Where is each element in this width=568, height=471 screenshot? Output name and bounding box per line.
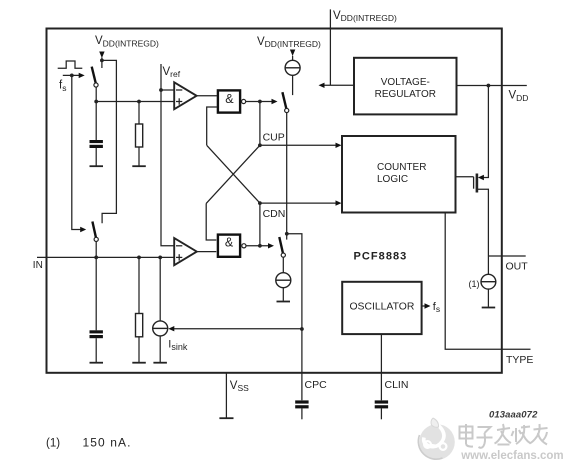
current source I2 xyxy=(276,273,291,288)
wire node CDN vertical xyxy=(259,203,261,246)
wire oscillator fs output xyxy=(422,305,425,307)
wire VSS pin xyxy=(225,373,227,418)
wire transistor source to OUT xyxy=(477,189,488,256)
wire OUT to current source I3 xyxy=(487,256,489,274)
svg-text:CUP: CUP xyxy=(263,132,285,144)
ground under I3 xyxy=(482,307,496,309)
block VOLTAGE-REGULATOR U1 xyxy=(354,58,457,115)
arrowheads xyxy=(79,50,484,332)
current source I3 ground wire xyxy=(487,289,489,307)
capacitor C1 wires xyxy=(95,102,97,141)
capacitor C2 xyxy=(90,330,103,338)
wire CDN to counter logic xyxy=(260,202,338,204)
svg-text:CDN: CDN xyxy=(263,208,286,220)
wire CPC stub below capacitor xyxy=(301,408,303,419)
svg-text:(1): (1) xyxy=(469,279,480,289)
arrow CUP into counter xyxy=(336,143,342,148)
wire CPC branch xyxy=(287,234,302,400)
wire crossover CUP to AND2 diagonal xyxy=(206,145,260,203)
capacitor C3 CPC external xyxy=(295,400,308,408)
watermark chinese glyph 3 xyxy=(495,424,512,445)
arrow VDD(INTREGD) feed 2 down xyxy=(290,50,295,57)
wire comparator A1 plus rail xyxy=(96,101,174,103)
capacitor C4 CLIN external xyxy=(375,400,388,408)
watermark chinese glyph 5 xyxy=(530,424,548,445)
ground under R2 xyxy=(132,362,146,364)
arrow fs bottom right xyxy=(80,227,86,232)
wire OUT pin xyxy=(488,255,525,257)
wire node CUP vertical xyxy=(259,102,261,146)
arrow VDD(INTREGD) feed 1 down xyxy=(99,52,104,59)
switch S1 xyxy=(92,67,98,88)
svg-text:&: & xyxy=(225,92,234,106)
watermark chinese glyph 4 xyxy=(512,425,531,444)
wire AND2 output xyxy=(246,245,270,247)
ground under C2 xyxy=(90,362,104,364)
wire switch S3 hinge down to S4 contact xyxy=(286,113,288,240)
arrow transistor drain left xyxy=(478,175,484,180)
ground under R1 xyxy=(132,165,146,167)
svg-text:OSCILLATOR: OSCILLATOR xyxy=(349,302,414,313)
arrow Isink control left xyxy=(168,326,174,331)
transistor Q1 xyxy=(474,174,477,193)
wire CLIN from oscillator bottom xyxy=(380,334,382,400)
wire switch S1 contact branch over to switch S2 contact xyxy=(102,60,117,223)
svg-text:REGULATOR: REGULATOR xyxy=(375,89,436,100)
switch S3 xyxy=(282,92,288,112)
arrow CDN into counter xyxy=(336,200,342,205)
resistor R1 xyxy=(136,124,143,147)
wire CUP to counter logic xyxy=(260,144,338,146)
ground under C1 xyxy=(90,165,104,167)
wire switch S4 hinge to current source I2 xyxy=(282,257,284,272)
svg-text:CLIN: CLIN xyxy=(385,379,409,391)
wire AND2 feedback input from CUP xyxy=(206,203,216,240)
wire AND1 feedback input from CDN xyxy=(207,107,217,145)
current source I3 xyxy=(481,274,496,289)
resistor R2 xyxy=(136,314,143,337)
block OSCILLATOR U3 xyxy=(342,282,421,334)
ground under I2 xyxy=(277,301,291,303)
ground under Isink xyxy=(153,362,167,364)
logic gate AND1 xyxy=(218,90,246,112)
ground VSS xyxy=(219,417,233,419)
capacitor C1 xyxy=(90,140,103,148)
svg-text:VOLTAGE-: VOLTAGE- xyxy=(381,77,430,88)
wire regulator right to VDD pin xyxy=(457,85,527,87)
op-amp comparator A1 xyxy=(174,82,196,109)
svg-text:&: & xyxy=(225,235,234,249)
wire switch S1 hinge to rail xyxy=(95,87,97,102)
wire VDD(INTREGD) arrow stub to switch S1 contact xyxy=(101,58,103,69)
current source I1 wire to switch S3 contact xyxy=(292,56,294,61)
watermark chinese glyph 1 xyxy=(460,424,474,447)
current source I1 xyxy=(285,60,300,75)
svg-text:150 nA.: 150 nA. xyxy=(83,436,132,450)
arrow fs oscillator output right xyxy=(425,303,431,308)
svg-text:TYPE: TYPE xyxy=(506,354,533,366)
switch S2 xyxy=(92,222,98,242)
resistor R2 wires xyxy=(138,257,140,313)
chip boundary box xyxy=(47,29,502,373)
watermark logo circle xyxy=(418,418,454,460)
op-amp comparator A2 xyxy=(174,238,197,265)
current source Isink xyxy=(153,321,168,336)
arrow AND1 output xyxy=(272,99,278,104)
pulse waveform symbol xyxy=(58,61,83,68)
svg-text:(1): (1) xyxy=(46,437,60,449)
arrow regulator output left xyxy=(319,83,325,88)
wire Vref vertical net xyxy=(161,64,174,246)
wire crossover CDN to AND1 diagonal xyxy=(207,145,260,203)
watermark chinese glyph 2 xyxy=(477,427,493,448)
svg-text:OUT: OUT xyxy=(506,261,529,273)
svg-text:IN: IN xyxy=(33,260,43,271)
wire switch S2 hinge to IN rail xyxy=(95,241,97,257)
arrow AND2 output xyxy=(268,243,274,248)
wire fs control vertical branch xyxy=(63,74,81,76)
wire comparator A2 output to AND2 xyxy=(197,251,217,253)
arrow fs top right xyxy=(79,73,85,78)
svg-text:PCF8883: PCF8883 xyxy=(354,251,408,263)
resistor R1 wires xyxy=(138,102,140,125)
svg-text:COUNTER: COUNTER xyxy=(377,162,426,173)
wire VDD to transistor drain xyxy=(483,86,489,178)
svg-text:013aaa072: 013aaa072 xyxy=(489,409,538,420)
svg-text:CPC: CPC xyxy=(305,379,328,391)
switch S4 xyxy=(279,237,285,257)
wire Vref tap to comparator A1 minus xyxy=(161,89,174,91)
wire IN pin xyxy=(37,256,174,258)
capacitor C2 wires xyxy=(95,257,97,330)
transistor Q1 gate wire xyxy=(456,176,474,178)
wire comparator A1 output to AND1 xyxy=(197,95,217,97)
wire CLIN stub below capacitor xyxy=(380,408,382,419)
block COUNTER LOGIC U2 xyxy=(342,136,456,213)
svg-text:www.elecfans.com: www.elecfans.com xyxy=(460,450,563,462)
current source Isink wires xyxy=(159,257,161,320)
logic gate AND2 xyxy=(218,235,246,257)
wire TYPE net from counter bottom xyxy=(445,213,530,350)
wire AND1 output xyxy=(246,101,274,103)
wire Isink control line xyxy=(172,328,302,330)
wire regulator left output xyxy=(322,84,354,86)
svg-text:LOGIC: LOGIC xyxy=(377,174,408,185)
net VDD(INTREGD) top pin wire xyxy=(329,9,331,85)
current source I2 to ground wire xyxy=(282,288,284,301)
